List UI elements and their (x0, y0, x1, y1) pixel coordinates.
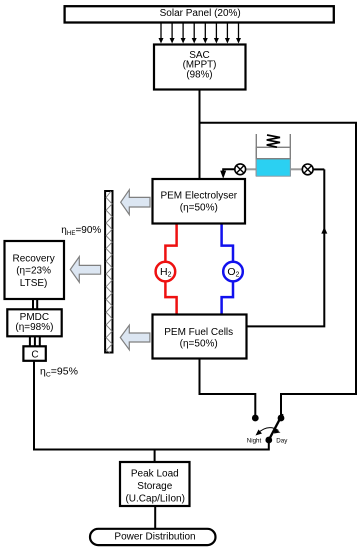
svg-text:Peak Load: Peak Load (131, 469, 179, 480)
svg-text:(98%): (98%) (186, 70, 212, 81)
svg-text:(η=50%): (η=50%) (180, 202, 218, 213)
svg-text:LTSE): LTSE) (20, 278, 48, 289)
svg-text:(η=98%): (η=98%) (15, 322, 53, 333)
svg-text:ηC=95%: ηC=95% (40, 366, 78, 379)
svg-text:C: C (31, 349, 38, 360)
svg-text:Recovery: Recovery (12, 253, 54, 264)
svg-text:PEM Fuel Cells: PEM Fuel Cells (164, 327, 233, 338)
svg-text:PEM Electrolyser: PEM Electrolyser (160, 191, 237, 202)
svg-text:(η=23%: (η=23% (16, 266, 51, 277)
svg-text:Day: Day (276, 437, 288, 444)
svg-text:(η=50%): (η=50%) (180, 339, 218, 350)
svg-text:Solar Panel (20%): Solar Panel (20%) (160, 8, 241, 19)
svg-text:ηHE=90%: ηHE=90% (61, 225, 101, 237)
svg-text:Night: Night (247, 437, 262, 444)
svg-text:Power Distribution: Power Distribution (114, 532, 195, 543)
svg-text:(U.Cap/LiIon): (U.Cap/LiIon) (125, 493, 184, 504)
svg-text:Storage: Storage (137, 481, 172, 492)
